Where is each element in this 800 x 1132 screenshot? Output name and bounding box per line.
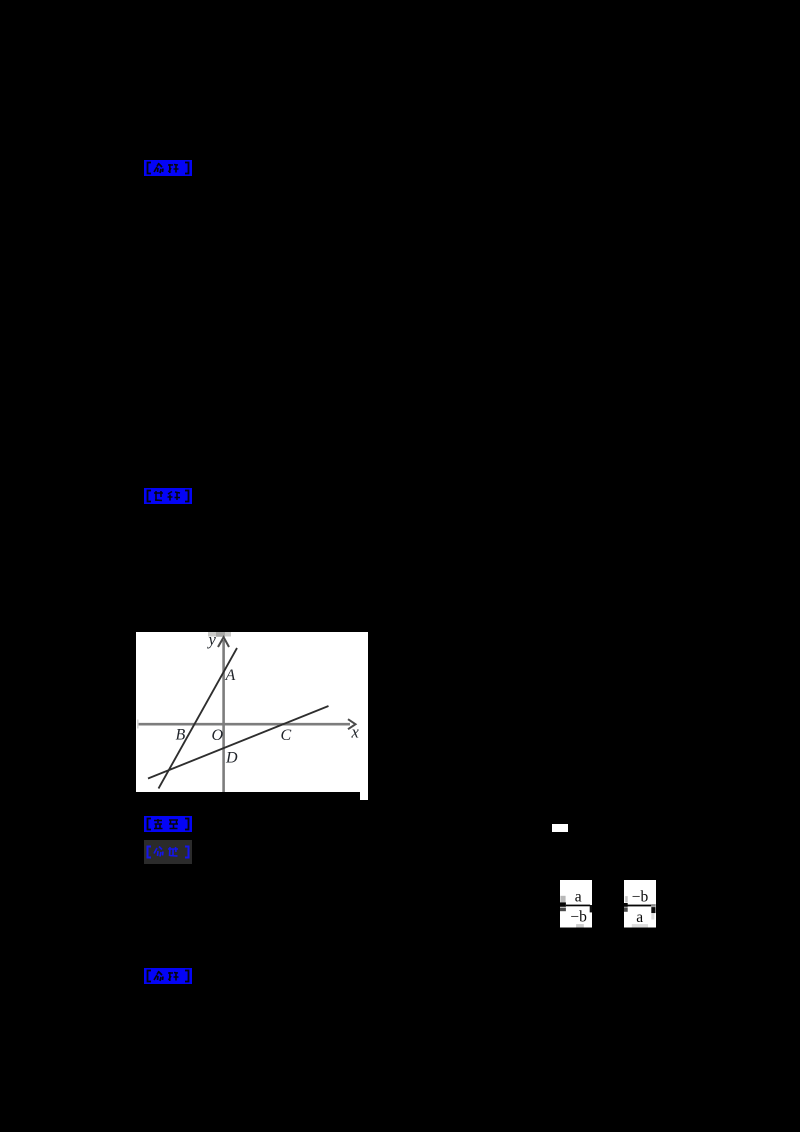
svg-text:−b: −b (570, 909, 587, 926)
white dash placeholder (552, 824, 568, 832)
svg-text:B: B (176, 727, 186, 744)
svg-text:O: O (212, 727, 224, 744)
fraction bar (627, 905, 651, 907)
shallow line CD (148, 706, 329, 779)
gray patch right (651, 913, 654, 919)
figure white notch bottom-right (360, 790, 368, 800)
figure white background (136, 632, 368, 792)
gray patch bottom (632, 924, 648, 927)
label tag 2 (blue highlight) (144, 488, 192, 504)
svg-text:x: x (351, 723, 360, 742)
y-axis (222, 640, 225, 792)
label tag 5 (blue highlight) (144, 968, 192, 984)
fraction bar (566, 905, 590, 907)
gray patch bottom (576, 924, 584, 927)
gray patch left (625, 896, 628, 902)
svg-text:−b: −b (632, 889, 649, 906)
label tag 4 (gray line with blue glyphs) (144, 840, 192, 864)
equals sign fragment left (624, 903, 628, 907)
gray patch left (560, 896, 565, 903)
x-axis (139, 723, 351, 726)
svg-text:C: C (281, 727, 292, 744)
label tag 1 (blue highlight) (144, 160, 192, 176)
fraction box 2: -b over a (624, 880, 656, 928)
svg-text:a: a (575, 888, 582, 905)
svg-text:A: A (225, 667, 236, 684)
label tag 3 (blue highlight) (144, 816, 192, 832)
y-axis arrowhead (218, 637, 229, 647)
right edge mark (590, 905, 592, 912)
svg-text:D: D (225, 750, 238, 767)
svg-text:y: y (207, 632, 217, 649)
comma right gray (651, 904, 655, 907)
x-axis left tick (137, 720, 139, 729)
svg-text:a: a (636, 909, 643, 926)
graph figure: white panel (136, 632, 368, 800)
steep line AB (159, 648, 238, 789)
equals sign fragment left (560, 902, 566, 906)
comma right black (651, 907, 655, 913)
fraction box 1: a over -b (560, 880, 592, 928)
x-axis arrowhead (348, 719, 356, 729)
gray smudge top (208, 632, 231, 637)
